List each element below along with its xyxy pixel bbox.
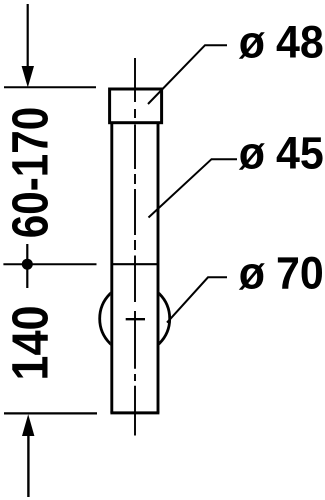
leader line ø70 <box>167 277 227 322</box>
extension line bottom <box>4 412 97 414</box>
leader line ø48 <box>148 45 227 104</box>
svg-text:ø: ø <box>239 128 265 178</box>
top dimension arrow <box>27 4 29 70</box>
tube body mask <box>110 121 159 413</box>
dimension dot <box>22 259 33 270</box>
svg-text:45: 45 <box>276 128 324 178</box>
extension line top <box>4 86 96 88</box>
wire: tube bottom edge <box>110 411 159 414</box>
svg-text:ø: ø <box>239 17 265 67</box>
circle (ø 70 boss) <box>100 284 170 354</box>
svg-text:140: 140 <box>2 305 59 380</box>
svg-text:70: 70 <box>276 248 324 298</box>
dimension line segment at mid <box>26 244 28 288</box>
extension line mid <box>3 263 96 265</box>
wire: tube seam joint line <box>113 263 159 265</box>
svg-text:60-170: 60-170 <box>2 107 59 238</box>
svg-text:ø: ø <box>239 248 265 298</box>
wire: tube right edge <box>157 122 160 413</box>
cap (ø 48 top piece) <box>110 89 162 123</box>
svg-text:48: 48 <box>276 17 324 67</box>
center cross of circle <box>126 318 145 320</box>
leader line ø45 <box>149 159 238 217</box>
bottom dimension arrow <box>22 414 34 436</box>
centerline (dash-dot segments) <box>134 58 136 436</box>
wire: tube left edge <box>110 122 113 413</box>
